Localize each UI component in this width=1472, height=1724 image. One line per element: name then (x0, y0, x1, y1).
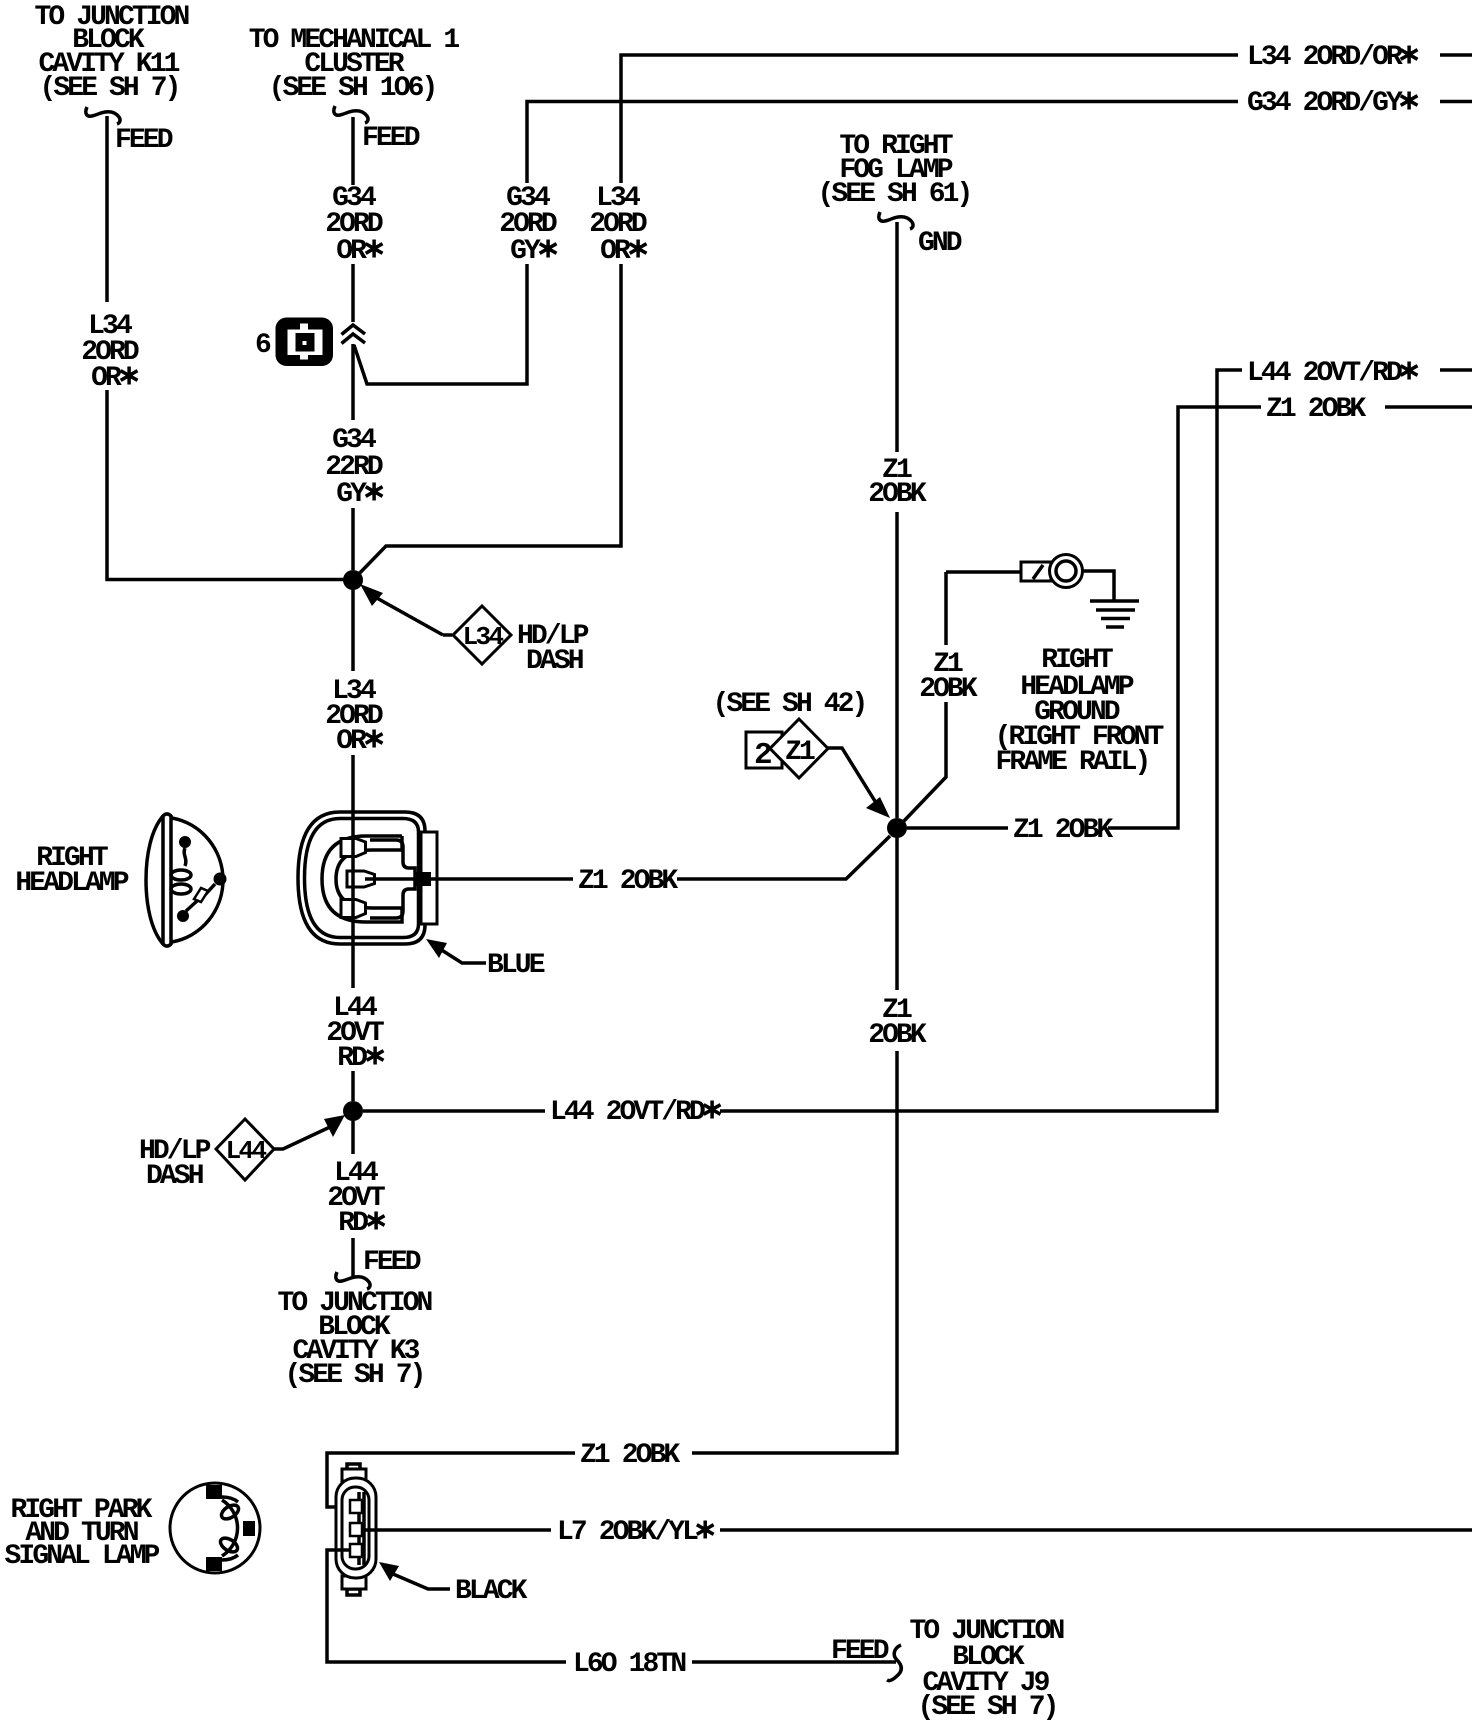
wire label Z1 20BK (fog column) (868, 455, 927, 510)
callout arrow from Z1 diamond to node B (828, 748, 890, 818)
wire label Z1 20BK (ring branch) (919, 649, 978, 705)
wire stub right of L44 label to edge (1440, 368, 1472, 372)
label RIGHT HEADLAMP GROUND (RIGHT FRONT FRAME RAIL) (995, 645, 1164, 778)
svg-text:L34 2ORD/OR: L34 2ORD/OR (1247, 42, 1403, 73)
right park/turn connector (BLACK) (336, 1464, 376, 1595)
wire label L44 20VT RD* (above node C) (326, 993, 384, 1074)
right park and turn signal lamp bulb symbol (170, 1483, 260, 1573)
svg-text:L44: L44 (226, 1136, 267, 1166)
svg-text:(SEE SH 7): (SEE SH 7) (39, 73, 178, 104)
wire G34 22RD/GY* from splice S1 down to node A (351, 344, 355, 570)
wire Z1 20BK from headlamp connector to ground node B (365, 836, 890, 879)
wire stub right of L34 label to edge (1440, 53, 1472, 57)
ring terminal (eyelet) (1021, 555, 1114, 601)
svg-text:BLUE: BLUE (487, 950, 545, 981)
diamond label L34 (HD/LP DASH) (453, 606, 511, 664)
wire label L34 20RD OR* (below node A) (325, 676, 383, 757)
svg-text:L34: L34 (463, 622, 504, 652)
wire label G34 20RD OR* (325, 183, 383, 267)
svg-text:HEADLAMP: HEADLAMP (15, 868, 128, 899)
svg-text:L44 2OVT/RD: L44 2OVT/RD (550, 1097, 705, 1128)
callout arrow BLACK (379, 1562, 450, 1589)
svg-text:DASH: DASH (526, 646, 583, 677)
node label: TO JUNCTION BLOCK CAVITY K3 (SEE SH 7) (278, 1288, 432, 1391)
svg-text:L44 2OVT/RD: L44 2OVT/RD (1247, 358, 1402, 389)
label HD/LP DASH (right) (517, 621, 589, 677)
callout arrow BLUE (426, 939, 486, 963)
svg-text:L6O 18TN: L6O 18TN (573, 1649, 685, 1680)
wire L44 20VT/RD* from node C down to junction block K3 (351, 1121, 355, 1276)
label RIGHT HEADLAMP (15, 843, 128, 899)
wire L60 18TN from park/turn connector to junction block J9 (327, 1550, 896, 1662)
right headlamp bulb symbol (146, 814, 227, 946)
node label: TO JUNCTION BLOCK CAVITY J9 (SEE SH 7) (910, 1616, 1064, 1723)
wire branch from splice S1 to G34 20RD/GY* column (354, 102, 1238, 385)
svg-text:(SEE SH 61): (SEE SH 61) (818, 179, 971, 210)
wire L44 20VT/RD* from connector to node C (351, 838, 355, 1101)
sheet box 2 (746, 732, 782, 768)
node label: TO RIGHT FOG LAMP (SEE SH 61) (818, 131, 971, 210)
wire label L44 20VT RD* (below node C) (327, 1158, 385, 1239)
callout arrow to node C from L44 diamond (274, 1115, 345, 1149)
node label: TO MECHANICAL 1 CLUSTER (SEE SH 106) (249, 25, 460, 104)
svg-text:DASH: DASH (146, 1161, 203, 1192)
svg-text:(SEE SH 42): (SEE SH 42) (713, 689, 866, 720)
wire label G34 20RD GY* (column 2) (499, 183, 557, 267)
svg-text:GY: GY (336, 479, 367, 510)
wire L34 20RD/OR* column 3 up to top line (353, 55, 1238, 580)
svg-text:(SEE SH 7): (SEE SH 7) (917, 1692, 1056, 1723)
svg-text:G34 2ORD/GY: G34 2ORD/GY (1247, 88, 1403, 119)
svg-text:(SEE SH 1O6): (SEE SH 1O6) (269, 73, 436, 104)
svg-text:FEED: FEED (115, 125, 173, 156)
splice chevron marks on wire (342, 325, 366, 344)
svg-text:RD: RD (337, 1043, 367, 1074)
callout arrow to node A from L34 diamond (360, 584, 452, 635)
svg-text:OR: OR (600, 236, 631, 267)
splice symbol icon 6 (black box) (276, 318, 334, 367)
svg-text:2OBK: 2OBK (868, 1020, 927, 1051)
svg-text:FEED: FEED (831, 1636, 889, 1667)
connector break symbol at cluster feed (334, 106, 368, 123)
label HD/LP DASH (left) (139, 1136, 211, 1192)
connector break symbol at J9 (887, 1645, 901, 1681)
wire Z1 20BK from fog lamp down to node B (895, 222, 899, 818)
svg-text:2OBK: 2OBK (919, 674, 978, 705)
svg-text:RD: RD (338, 1208, 368, 1239)
svg-text:2: 2 (754, 738, 771, 773)
wire L34 20RD/OR* from K11 down to junction node A (107, 116, 344, 580)
wire L7 20BK/YL* from park/turn connector (364, 1528, 1472, 1532)
svg-text:FEED: FEED (362, 123, 420, 154)
junction node B (Z1 ground splice) (887, 818, 907, 838)
diamond label L44 (HD/LP DASH) (216, 1119, 274, 1180)
wire Z1 20BK from node B right to riser (907, 407, 1261, 828)
connector break symbol at K3 (336, 1272, 370, 1289)
svg-text:GND: GND (918, 228, 962, 259)
svg-text:Z1: Z1 (785, 737, 815, 768)
svg-text:OR: OR (336, 236, 367, 267)
junction node A (L34 splice) (343, 570, 363, 590)
connector break symbol at K11 feed (86, 107, 120, 124)
svg-text:FRAME RAIL): FRAME RAIL) (996, 747, 1149, 778)
svg-text:L7 2OBK/YL: L7 2OBK/YL (557, 1517, 698, 1548)
svg-text:6: 6 (255, 330, 271, 361)
svg-text:OR: OR (336, 726, 367, 757)
diamond label Z1 (see sh 42) (770, 719, 828, 778)
svg-text:FEED: FEED (363, 1247, 421, 1278)
wire label G34 22RD GY* (325, 425, 383, 510)
svg-text:Z1 2OBK: Z1 2OBK (1013, 815, 1113, 846)
wire Z1 20BK from node B down to park/turn lamp (327, 838, 897, 1507)
svg-text:2OBK: 2OBK (868, 479, 927, 510)
wire Z1 20BK from node B to ring terminal (903, 572, 1021, 822)
wire G34 20RD/OR* from cluster to splice S1 (351, 117, 355, 322)
svg-text:(SEE SH 7): (SEE SH 7) (284, 1360, 423, 1391)
wire label Z1 20BK (lower) (868, 995, 927, 1051)
svg-text:Z1 2OBK: Z1 2OBK (580, 1440, 680, 1471)
right headlamp connector (BLUE) (298, 812, 437, 944)
connector break symbol at fog lamp GND (879, 212, 913, 229)
headlamp connector pins (341, 839, 375, 918)
junction node C (L44 splice) (343, 1101, 363, 1121)
wire label L34 20RD OR* (column 3) (589, 183, 647, 267)
wire stub right of G34 label to edge (1440, 100, 1472, 104)
wire stub right of Z1 label to edge (1385, 405, 1472, 409)
ground symbol (right front frame rail) (1090, 601, 1139, 627)
svg-text:BLACK: BLACK (455, 1576, 528, 1607)
svg-text:OR: OR (91, 363, 122, 394)
svg-text:GY: GY (510, 236, 541, 267)
svg-text:Z1 2OBK: Z1 2OBK (578, 866, 678, 897)
wire L34 20RD/OR* from node A to headlamp connector (351, 590, 355, 840)
node label: TO JUNCTION BLOCK CAVITY K11 (SEE SH 7) (35, 2, 189, 104)
wire L44 20VT/RD* from node C to right riser (363, 370, 1242, 1111)
svg-text:Z1 2OBK: Z1 2OBK (1266, 394, 1366, 425)
svg-text:SIGNAL LAMP: SIGNAL LAMP (5, 1541, 160, 1572)
label RIGHT PARK AND TURN SIGNAL LAMP (5, 1495, 160, 1572)
wire label L34 20RD OR* (left column) (81, 311, 139, 394)
